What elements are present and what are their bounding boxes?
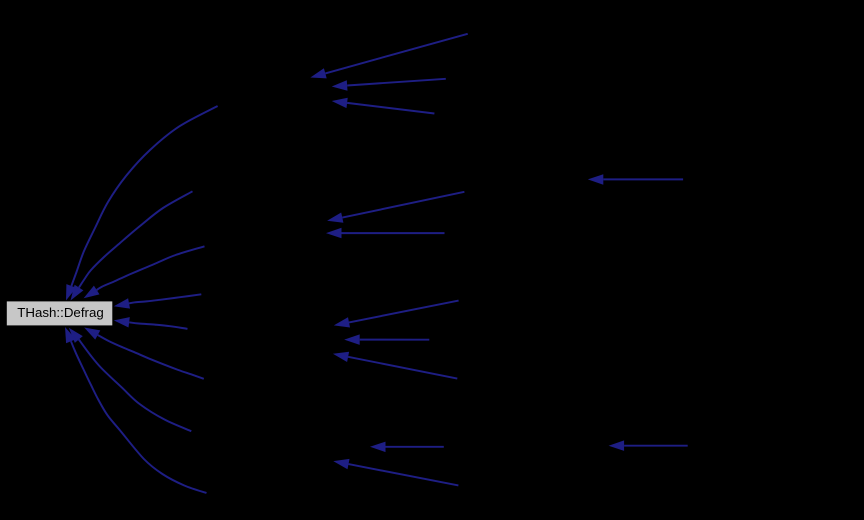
wire: straight arrow A5: [326, 228, 445, 239]
wire: straight arrow A6: [334, 301, 459, 328]
wire: straight arrow A1: [310, 34, 467, 79]
wire: curved edge C8 into node THash::Defrag: [65, 327, 207, 493]
wire: straight arrow A4: [327, 192, 464, 223]
wire: straight arrow A12: [588, 174, 683, 185]
wire: straight arrow A7: [344, 334, 429, 345]
wire: straight arrow A11: [609, 440, 688, 451]
wire: curved edge C5 into node THash::Defrag: [114, 317, 188, 329]
wire: straight arrow A3: [332, 98, 435, 114]
wire: curved edge C6 into node THash::Defrag: [84, 328, 204, 379]
wire: straight arrow A8: [333, 352, 457, 379]
wire: curved edge C7 into node THash::Defrag: [69, 328, 192, 432]
wire: straight arrow A9: [370, 442, 444, 453]
wire: curved edge C1 into node THash::Defrag: [66, 106, 218, 301]
wire: curved edge C3 into node THash::Defrag: [84, 246, 205, 298]
wire: straight arrow A2: [332, 79, 446, 91]
wire: curved edge C2 into node THash::Defrag: [71, 191, 193, 300]
wire: straight arrow A10: [333, 459, 458, 486]
node THash::Defrag: [6, 301, 113, 326]
svg-text:THash::Defrag: THash::Defrag: [17, 305, 103, 320]
wire: curved edge C4 into node THash::Defrag: [114, 294, 202, 308]
